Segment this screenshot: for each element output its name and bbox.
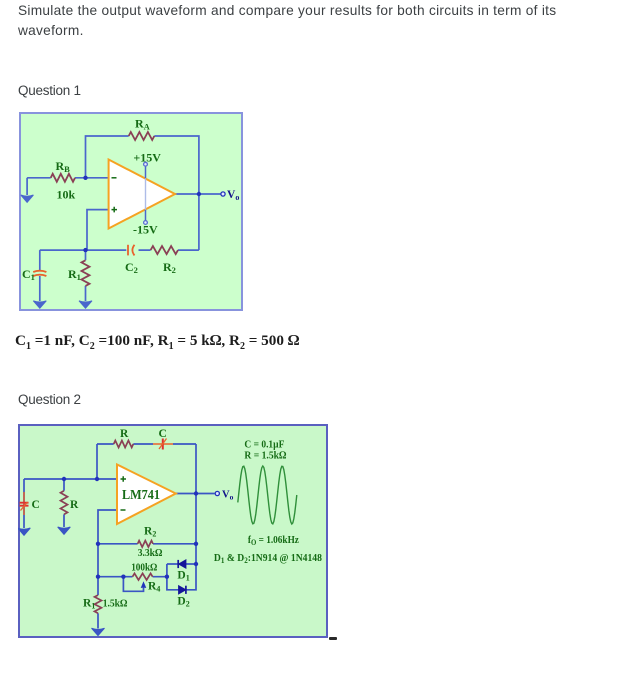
svg-text:R = 1.5kΩ: R = 1.5kΩ [244,450,286,462]
wire pot rail [98,576,167,578]
wire noninverting input [87,210,109,251]
svg-text:1.5kΩ: 1.5kΩ [103,599,128,610]
node pot rail left [96,575,100,579]
svg-text:D1 & D2:1N914 @ 1N4148: D1 & D2:1N914 @ 1N4148 [214,552,323,565]
svg-text:3.3kΩ: 3.3kΩ [138,548,163,559]
wire C1 branch [39,250,41,301]
diode D2 [179,586,186,594]
resistor R top [114,441,134,448]
ground R left [58,527,71,534]
resistor R2 [138,541,153,547]
svg-text:R: R [70,499,79,511]
capacitor C2 [128,245,135,256]
stray dash mark [329,637,337,640]
svg-text:+15V: +15V [133,151,161,165]
svg-text:10k: 10k [57,188,76,202]
terminal Vo [215,491,219,495]
wire C branch [23,479,25,528]
circuit 1 board background [20,113,242,310]
terminal +15V [144,162,148,166]
resistor R2 [151,246,178,254]
ground bottom [92,628,105,635]
waveform sine [238,466,297,524]
terminal Vo [221,192,225,196]
wire left ground stub [26,178,28,195]
node plus rail vertical [95,477,99,481]
wire pot wiper loop [123,577,143,592]
node diode top right [194,562,198,566]
resistor RB [51,174,75,182]
wire top feedback [97,443,196,445]
wire R2 rail [98,543,196,545]
node output [194,491,198,495]
circuit 2 board background [19,425,327,637]
diode D1 [178,560,186,568]
wire R1 branch [85,250,87,301]
svg-text:fO = 1.06kHz: fO = 1.06kHz [248,534,299,547]
op-amp supply rail wire [145,166,147,178]
capacitor C left [20,492,29,515]
capacitor C1 [33,271,46,276]
wire plus input rail [24,478,117,480]
wire inverting input [27,177,109,179]
svg-text:C: C [32,499,40,511]
op-amp plus sign [121,476,127,482]
svg-text:R: R [120,428,129,440]
node diode left [165,575,169,579]
node bottom rail [83,248,87,252]
wire right vertical [195,444,197,564]
ground C1 [33,301,46,308]
wire top feedback [86,136,199,194]
wire output [175,193,221,195]
resistor R1 [95,595,102,613]
node R2 rail left [96,542,100,546]
node wiper tap [121,575,125,579]
op-amp U1 [109,160,175,229]
svg-text:C: C [159,428,167,440]
potentiometer R4 [133,573,153,580]
resistor R left [61,491,68,515]
wire minus input [98,510,117,544]
node minus input [83,176,87,180]
node output [197,192,201,196]
wire right vertical [198,194,200,250]
node plus rail C [62,477,66,481]
ground C left [18,528,31,535]
ground left [21,195,34,202]
op-amp U1 LM741 [117,465,176,525]
node R2 rail right [194,542,198,546]
wire output [176,493,215,495]
op-amp minus sign [112,177,117,179]
svg-text:LM741: LM741 [122,488,160,503]
pot wiper arrow [141,581,147,588]
wire left vertical lower [97,544,99,629]
wire left vertical to plus [96,444,98,479]
svg-text:-15V: -15V [133,223,158,237]
ground R1 [79,301,92,308]
resistor RA [129,132,155,140]
resistor R1 [82,260,90,286]
svg-text:100kΩ: 100kΩ [131,562,157,573]
wire bottom rail [40,249,199,251]
op-amp plus sign [112,207,118,213]
wire R branch [63,479,65,527]
op-amp minus sign [121,509,126,511]
capacitor C top [153,439,173,450]
terminal -15V [144,221,148,225]
wire diode loop [167,564,196,590]
